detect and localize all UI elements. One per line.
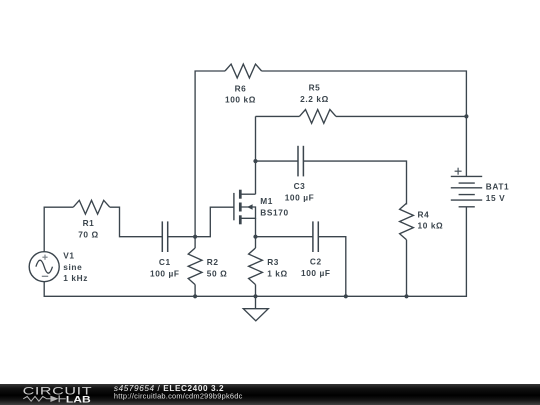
svg-text:R6: R6	[235, 83, 247, 93]
svg-text:V1: V1	[63, 250, 74, 260]
svg-text:100 µF: 100 µF	[301, 268, 331, 278]
svg-text:100 µF: 100 µF	[150, 268, 180, 278]
svg-text:R3: R3	[267, 257, 279, 267]
svg-text:50 Ω: 50 Ω	[207, 268, 228, 278]
svg-text:100 µF: 100 µF	[285, 192, 315, 202]
svg-text:R2: R2	[207, 257, 219, 267]
svg-text:15 V: 15 V	[486, 193, 505, 203]
svg-text:M1: M1	[260, 196, 273, 206]
svg-text:C3: C3	[294, 181, 306, 191]
svg-text:1 kHz: 1 kHz	[63, 273, 88, 283]
svg-text:BS170: BS170	[260, 208, 288, 218]
svg-text:1 kΩ: 1 kΩ	[267, 268, 288, 278]
svg-text:C2: C2	[310, 257, 322, 267]
svg-text:LAB: LAB	[66, 395, 91, 405]
svg-text:R5: R5	[309, 83, 321, 93]
svg-text:2.2 kΩ: 2.2 kΩ	[300, 94, 329, 104]
svg-text:R4: R4	[418, 209, 430, 219]
svg-text:R1: R1	[83, 218, 95, 228]
svg-text:100 kΩ: 100 kΩ	[225, 95, 256, 105]
svg-text:http://circuitlab.com/cdm299b9: http://circuitlab.com/cdm299b9pk6dc	[114, 391, 243, 400]
svg-text:70 Ω: 70 Ω	[78, 230, 99, 240]
svg-text:10 kΩ: 10 kΩ	[418, 221, 444, 231]
svg-text:BAT1: BAT1	[486, 182, 509, 192]
svg-text:sine: sine	[63, 262, 82, 272]
svg-text:C1: C1	[159, 257, 171, 267]
